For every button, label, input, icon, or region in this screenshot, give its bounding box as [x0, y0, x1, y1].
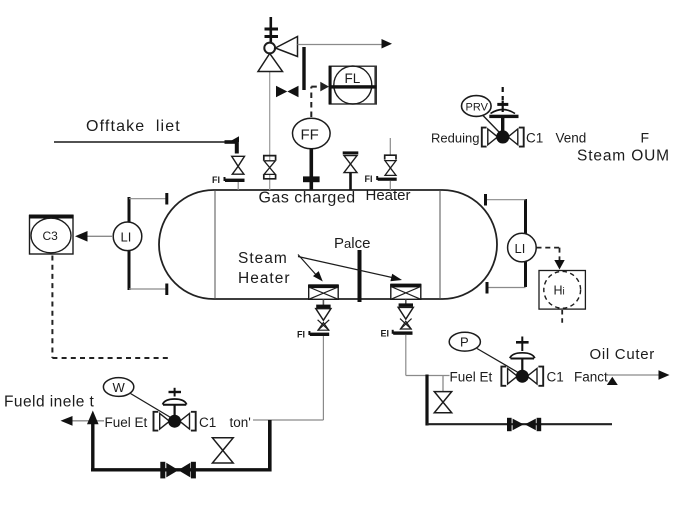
fuel pipe (right) — [406, 375, 450, 377]
heater top valve with brackets — [385, 155, 396, 175]
steam trap stack 2 — [381, 300, 414, 339]
svg-text:Reduing: Reduing — [431, 131, 479, 146]
instrument PRV — [462, 96, 492, 117]
svg-text:W: W — [113, 380, 126, 395]
svg-text:Palce: Palce — [334, 235, 370, 252]
svg-text:Fanct: Fanct — [574, 370, 608, 385]
internal pipe mark below Palce — [358, 250, 362, 302]
svg-text:Steam: Steam — [238, 250, 288, 267]
block valve (solid bowtie) — [276, 86, 299, 97]
reducing valve actuator — [489, 87, 518, 132]
recirculation loop (left, thick) — [87, 411, 272, 472]
svg-text:FL: FL — [345, 71, 361, 86]
relief stack valve with brackets — [264, 156, 276, 179]
inlet valve (hourglass) at vessel top left — [232, 156, 245, 174]
label Reduing — [431, 131, 479, 146]
left bridle top nozzle tick — [165, 193, 168, 205]
FF nozzle (thick drop + flange) — [303, 149, 320, 190]
flanged gate valve (left, solid) — [160, 462, 196, 479]
offtake pipe line — [54, 141, 228, 143]
instrument FF — [293, 118, 331, 149]
signal line PRV to valve — [483, 116, 499, 133]
label Fuel Et (right) — [450, 370, 493, 385]
svg-text:EI: EI — [381, 329, 390, 339]
drain globe valve (left open) — [212, 438, 233, 463]
right bridle top nozzle tick — [484, 194, 487, 206]
dashed stub below HI — [561, 310, 563, 326]
label Oil Cuter — [590, 346, 655, 363]
svg-text:Gas charged: Gas charged — [259, 190, 356, 207]
indicator HI — [539, 271, 585, 310]
label Fueld inele t — [4, 394, 95, 411]
svg-text:Fuel Et: Fuel Et — [105, 415, 148, 430]
fuel outlet line with arrow — [606, 370, 670, 385]
fuel control valve body (left) — [154, 412, 196, 431]
vent line to flare with arrow — [298, 39, 393, 49]
offtake elbow down (thick) — [225, 136, 240, 153]
drain branch with globe valve (right) — [434, 376, 451, 413]
blind spectacle bar — [302, 47, 305, 90]
left level bridle standpipe — [129, 197, 166, 290]
svg-text:Hi: Hi — [554, 284, 565, 298]
label Steam OUM — [577, 148, 670, 165]
pointer arrow to steam heater 1 — [298, 255, 323, 282]
svg-text:LI: LI — [121, 230, 132, 245]
flanged gate valve (right, solid) — [507, 418, 541, 431]
label Palce — [334, 235, 370, 252]
svg-text:F: F — [641, 130, 650, 146]
steam heater bundle 2 — [390, 284, 421, 300]
signal line W to valve — [131, 394, 172, 419]
instrument LI (right) — [508, 233, 537, 262]
label Steam Heater — [238, 250, 291, 287]
reducing valve body with brackets — [482, 128, 524, 147]
svg-text:FF: FF — [301, 127, 319, 144]
svg-text:ton': ton' — [230, 415, 251, 430]
svg-text:C1: C1 — [526, 131, 543, 146]
bypass elbow down (right) — [427, 375, 612, 426]
fuel control valve actuator (right) — [510, 337, 535, 371]
svg-text:Heater: Heater — [366, 187, 411, 204]
svg-text:FI: FI — [212, 175, 220, 185]
svg-text:Heater: Heater — [238, 270, 291, 287]
svg-text:Steam OUM: Steam OUM — [577, 148, 670, 165]
condensate line 2 — [405, 335, 407, 376]
Offtake inlet label — [86, 118, 181, 135]
label Gas charged — [259, 190, 356, 207]
inlet nozzle flange bar with FI tag — [212, 175, 245, 190]
svg-text:C1: C1 — [547, 370, 564, 385]
label F — [641, 130, 650, 146]
gate valve on vessel top (mid) — [343, 151, 359, 190]
recorder C3 — [29, 215, 74, 255]
dashed signal from C3 down and right — [52, 256, 168, 359]
pointer arrow to steam heater 2 — [298, 257, 402, 282]
svg-text:Fuel Et: Fuel Et — [450, 370, 493, 385]
right bridle bottom nozzle tick — [486, 282, 489, 294]
instrument P — [449, 332, 480, 351]
condensate line 1 — [322, 336, 324, 420]
heater nozzle flange bar with FI tag — [365, 174, 397, 190]
svg-text:LI: LI — [515, 241, 526, 256]
dashed signal LI to HI with arrow — [537, 248, 565, 270]
label C1 ton — [199, 415, 251, 430]
safety valve PSV spring — [265, 17, 279, 43]
svg-text:Fueld inele t: Fueld inele t — [4, 394, 95, 411]
svg-text:FI: FI — [297, 330, 305, 340]
signal line LI to C3 with arrow — [75, 231, 113, 242]
left bridle bottom nozzle tick — [165, 284, 168, 296]
label C1 Vend — [526, 131, 586, 146]
label Heater (top) — [366, 187, 411, 204]
recorder FL — [329, 66, 377, 104]
label Fanct — [574, 370, 608, 385]
instrument LI (left) — [113, 222, 142, 251]
svg-text:Oil Cuter: Oil Cuter — [590, 346, 655, 363]
fuel inlet pipe with arrow (left) — [61, 416, 324, 426]
svg-text:Vend: Vend — [556, 131, 587, 146]
signal line P to valve — [477, 349, 519, 374]
fuel control valve actuator (left) — [163, 388, 187, 415]
vessel V1 (horizontal drum) — [159, 190, 497, 299]
dashed signal FF to FL with arrow — [311, 82, 329, 117]
svg-text:C1: C1 — [199, 415, 216, 430]
fuel control valve body (right) — [501, 367, 543, 386]
label Fuel Et (left) — [105, 415, 148, 430]
steam trap stack 1 — [297, 300, 331, 340]
safety valve PSV body — [258, 37, 298, 72]
instrument W — [103, 378, 133, 397]
svg-text:PRV: PRV — [466, 102, 489, 114]
heater top line — [389, 138, 391, 155]
svg-text:C3: C3 — [43, 229, 59, 243]
relief riser line — [269, 72, 271, 190]
svg-text:Offtakeliet: Offtakeliet — [86, 118, 181, 135]
right level bridle standpipe — [487, 199, 526, 288]
svg-text:FI: FI — [365, 174, 373, 184]
label C1 (right) — [547, 370, 564, 385]
steam heater bundle 1 — [308, 284, 339, 299]
svg-text:P: P — [460, 335, 469, 350]
